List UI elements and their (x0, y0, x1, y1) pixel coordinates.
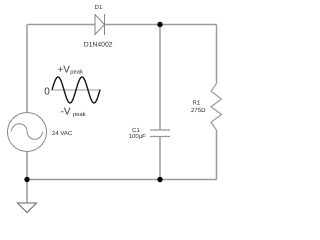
svg-text:D1: D1 (95, 4, 103, 11)
svg-text:275Ω: 275Ω (191, 107, 206, 114)
svg-text:R1: R1 (192, 100, 200, 107)
svg-text:24 VAC: 24 VAC (52, 130, 73, 137)
svg-text:D1N4002: D1N4002 (84, 41, 113, 48)
svg-text:-V: -V (61, 107, 71, 118)
svg-text:100µF: 100µF (129, 133, 146, 140)
svg-text:+V: +V (57, 65, 70, 76)
svg-text:C1: C1 (132, 127, 140, 134)
svg-text:peak: peak (73, 111, 86, 118)
svg-text:peak: peak (70, 68, 83, 75)
svg-text:0: 0 (44, 86, 50, 97)
